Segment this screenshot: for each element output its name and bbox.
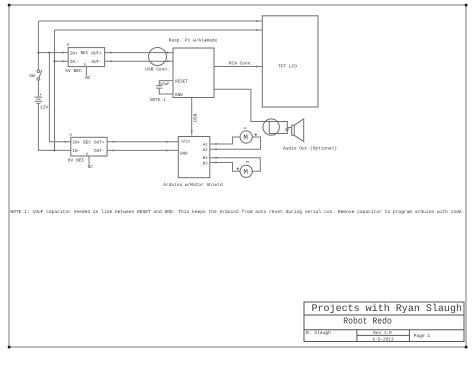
svg-text:12V: 12V — [40, 104, 49, 110]
svg-text:IN-: IN- — [72, 149, 80, 154]
motor M1 — [240, 128, 257, 143]
svg-text:NOTE 1: 10uF capacitor needed: NOTE 1: 10uF capacitor needed on line be… — [10, 209, 464, 215]
note text — [10, 209, 464, 215]
TFT LCD box — [262, 16, 318, 107]
wire A1 to motor1 — [210, 137, 241, 145]
svg-text:OUT-: OUT- — [91, 60, 101, 65]
title text — [312, 303, 463, 315]
svg-text:USB Conn.: USB Conn. — [145, 66, 169, 72]
svg-text:NC: NC — [85, 76, 91, 81]
svg-text:B2: B2 — [203, 161, 209, 166]
speaker SP — [285, 119, 304, 142]
title block — [304, 302, 464, 342]
svg-text:RCA Conn.: RCA Conn. — [229, 61, 253, 67]
svg-text:NC: NC — [88, 165, 94, 170]
svg-text:NOTE 1: NOTE 1 — [150, 98, 166, 103]
svg-text:G: G — [86, 152, 88, 157]
wire B1 to motor2 — [210, 157, 260, 172]
subtitle text — [343, 317, 392, 327]
svg-text:RESET: RESET — [175, 80, 189, 85]
svg-text:OUT+: OUT+ — [94, 141, 105, 146]
wire 5V OUT- to Pi — [105, 60, 173, 62]
svg-text:USB: USB — [192, 113, 198, 121]
switch SW — [29, 70, 42, 80]
svg-text:IN+: IN+ — [72, 141, 80, 146]
Arduino w/Motor Shield box — [163, 137, 223, 189]
svg-text:TFT LCD: TFT LCD — [278, 63, 297, 69]
svg-text:5V BEC: 5V BEC — [65, 68, 82, 74]
wire A2 to motor1 — [210, 137, 261, 150]
svg-text:Audio Out (Optional): Audio Out (Optional) — [283, 145, 337, 151]
BEC U1 5V box — [65, 43, 104, 74]
svg-text:Page 1: Page 1 — [414, 333, 431, 339]
svg-text:A1: A1 — [203, 143, 209, 148]
NC stub 6V BEC — [88, 156, 94, 170]
wire 5V OUT+ to Pi — [105, 51, 173, 53]
BEC U2 6V box — [68, 133, 107, 164]
svg-text:Rev 1.0: Rev 1.0 — [373, 331, 392, 336]
wire audio Pi to amp — [214, 89, 269, 121]
wire +12V top rail to TFT — [38, 20, 262, 22]
Rasp Pi w/Alamode box — [169, 37, 218, 98]
svg-text:A2: A2 — [203, 148, 209, 153]
wire USB Pi to Arduino — [191, 98, 199, 136]
svg-text:IN+: IN+ — [70, 51, 78, 56]
capacitor C1 10uF on RESET — [156, 81, 173, 94]
svg-text:IN-: IN- — [70, 60, 78, 65]
svg-text:SP: SP — [285, 128, 290, 133]
RCA plug / amp — [263, 119, 292, 135]
svg-text:R. Slaugh: R. Slaugh — [306, 330, 331, 336]
svg-text:M: M — [243, 169, 248, 177]
svg-text:BEC: BEC — [83, 140, 91, 145]
svg-text:OUT-: OUT- — [94, 149, 104, 154]
svg-text:6V BEC: 6V BEC — [68, 158, 85, 164]
svg-text:10uF: 10uF — [160, 82, 171, 87]
wire battery/switch vertical line — [38, 21, 70, 150]
wire 5V BEC IN+ — [37, 51, 68, 53]
wire GND vertical rail — [54, 30, 56, 151]
svg-text:6-5-2013: 6-5-2013 — [373, 337, 394, 342]
wire GND top rail to TFT — [55, 29, 263, 31]
svg-text:OUT+: OUT+ — [91, 51, 102, 56]
svg-text:GND: GND — [175, 93, 183, 98]
svg-text:Arduino w/Motor Shield: Arduino w/Motor Shield — [163, 182, 223, 188]
NOTE 1 label — [150, 98, 166, 103]
wire B2 to motor2 — [210, 161, 241, 171]
svg-text:B1: B1 — [203, 156, 209, 161]
USB connector circle — [145, 48, 169, 73]
svg-text:G: G — [84, 62, 86, 67]
titleblock cells — [306, 330, 430, 342]
wire positive branch to 6V BEC IN+ — [49, 53, 70, 143]
svg-text:Rasp. Pi w/Alamode: Rasp. Pi w/Alamode — [169, 37, 218, 43]
battery 12V — [35, 93, 49, 110]
wire RCA Pi to TFT — [214, 61, 262, 68]
wire 6V OUT+ to Arduino +Vin — [107, 141, 178, 143]
motor M2 — [236, 162, 252, 178]
NC stub 5V BEC — [85, 67, 91, 82]
svg-text:Projects with Ryan Slaugh: Projects with Ryan Slaugh — [312, 303, 463, 315]
svg-text:Robot Redo: Robot Redo — [343, 317, 392, 327]
wire 6V OUT- to Arduino GND — [107, 149, 178, 151]
svg-text:BEC: BEC — [81, 51, 89, 56]
svg-text:M: M — [243, 135, 248, 143]
label audio out — [283, 145, 337, 151]
svg-text:SW: SW — [29, 73, 35, 79]
svg-text:GND: GND — [180, 151, 188, 156]
wire 5V BEC IN- — [55, 60, 69, 62]
